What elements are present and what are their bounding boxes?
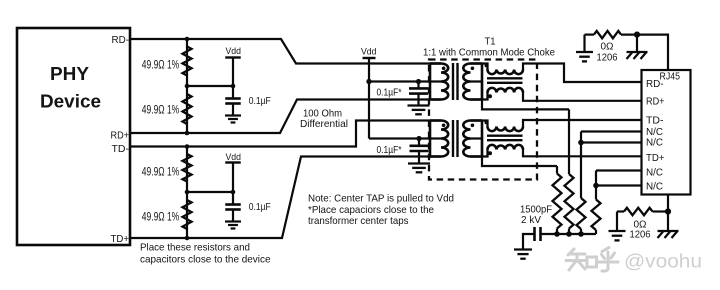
svg-text:RD+: RD+	[646, 97, 665, 108]
svg-text:N/C: N/C	[646, 182, 663, 193]
svg-text:Vdd: Vdd	[361, 46, 377, 57]
svg-text:Differential: Differential	[300, 119, 348, 130]
svg-text:1:1 with Common Mode Choke: 1:1 with Common Mode Choke	[423, 47, 555, 58]
svg-text:TD-: TD-	[646, 116, 664, 127]
svg-text:N/C: N/C	[646, 138, 663, 149]
svg-text:1500pF: 1500pF	[520, 205, 552, 216]
svg-text:RD+: RD+	[111, 130, 130, 141]
svg-text:49.9Ω 1%: 49.9Ω 1%	[142, 210, 180, 224]
svg-text:0.1µF*: 0.1µF*	[377, 87, 402, 98]
svg-text:N/C: N/C	[646, 168, 663, 179]
svg-text:*Place capaciors close to the: *Place capaciors close to the	[308, 205, 434, 216]
svg-text:Place these resistors and: Place these resistors and	[140, 243, 250, 254]
svg-text:TD+: TD+	[646, 153, 665, 164]
svg-text:2 kV: 2 kV	[521, 215, 541, 226]
svg-text:PHY: PHY	[50, 64, 89, 84]
svg-text:1206: 1206	[597, 53, 618, 64]
svg-text:transformer center taps: transformer center taps	[308, 216, 409, 227]
svg-text:0.1µF: 0.1µF	[249, 96, 271, 107]
svg-text:Device: Device	[40, 92, 101, 112]
svg-text:49.9Ω 1%: 49.9Ω 1%	[142, 57, 180, 71]
svg-text:T1: T1	[485, 36, 496, 47]
svg-text:49.9Ω 1%: 49.9Ω 1%	[142, 164, 180, 178]
svg-text:@voohu: @voohu	[624, 252, 702, 273]
svg-text:TD+: TD+	[111, 234, 130, 245]
svg-text:0.1µF*: 0.1µF*	[377, 145, 402, 156]
svg-text:Vdd: Vdd	[226, 46, 242, 57]
svg-text:0.1µF: 0.1µF	[249, 202, 271, 213]
svg-text:0Ω: 0Ω	[601, 42, 614, 53]
svg-text:Vdd: Vdd	[226, 152, 242, 163]
svg-text:49.9Ω 1%: 49.9Ω 1%	[142, 103, 180, 117]
svg-text:1206: 1206	[630, 229, 651, 240]
svg-text:capacitors close to the device: capacitors close to the device	[140, 255, 271, 266]
svg-text:Note: Center TAP is pulled to: Note: Center TAP is pulled to Vdd	[308, 193, 454, 204]
svg-text:TD-: TD-	[112, 144, 130, 155]
svg-text:N/C: N/C	[646, 127, 663, 138]
svg-text:RD-: RD-	[112, 35, 130, 46]
svg-text:RD-: RD-	[646, 79, 664, 90]
